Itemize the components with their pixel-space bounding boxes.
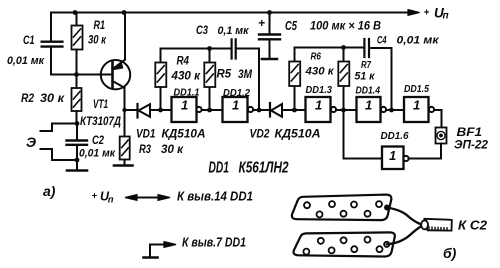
sensor electrode Э	[41, 149, 78, 160]
resistor R3	[120, 110, 130, 165]
label DD1.1	[174, 87, 200, 113]
power rail +Un	[51, 10, 420, 41]
svg-text:VT1: VT1	[93, 99, 108, 111]
svg-text:51 к: 51 к	[355, 71, 376, 83]
gate DD1.5	[404, 97, 442, 128]
svg-text:430 к: 430 к	[170, 71, 201, 83]
sound emitter BF1	[436, 128, 447, 159]
label R6	[304, 51, 335, 78]
gate DD1.3	[306, 97, 357, 122]
wire collector to VD1	[125, 109, 138, 111]
svg-text:30 к: 30 к	[88, 35, 107, 47]
label C2	[79, 133, 116, 160]
svg-text:0,01 мк: 0,01 мк	[79, 148, 116, 160]
sensor plate lower	[294, 232, 395, 256]
label R5	[217, 69, 253, 82]
label DD1.6	[381, 130, 409, 163]
svg-text:DD1.4: DD1.4	[356, 85, 381, 97]
svg-text:1: 1	[315, 98, 322, 113]
svg-text:1: 1	[389, 148, 396, 163]
svg-text:C2: C2	[92, 133, 104, 147]
svg-text:3М: 3М	[238, 69, 252, 81]
label b)	[443, 245, 457, 261]
sensor plate upper	[292, 195, 391, 221]
svg-text:C3: C3	[196, 23, 208, 37]
wire top of right multivibrator	[295, 45, 365, 50]
label BF1	[454, 127, 489, 152]
label DD1.2	[223, 87, 250, 113]
svg-text:К561ЛН2: К561ЛН2	[239, 160, 289, 177]
svg-text:30 к: 30 к	[40, 93, 65, 105]
svg-text:КД510А: КД510А	[275, 127, 321, 141]
svg-text:КД510А: КД510А	[162, 127, 206, 141]
svg-text:п: п	[443, 10, 449, 21]
capacitor C4	[364, 39, 391, 110]
svg-text:30 к: 30 к	[161, 144, 184, 156]
svg-text:DD1: DD1	[209, 160, 230, 177]
svg-text:BF1: BF1	[457, 127, 483, 139]
resistor R2	[72, 75, 82, 124]
label VD1	[136, 127, 206, 141]
svg-text:R1: R1	[94, 20, 106, 32]
connector lug	[421, 219, 452, 231]
label pin 7	[182, 236, 246, 250]
svg-text:VD2: VD2	[250, 127, 270, 141]
svg-text:DD1.5: DD1.5	[404, 83, 429, 95]
svg-text:п: п	[108, 195, 114, 206]
gate DD1.6 feedback	[344, 110, 442, 169]
label R4	[170, 56, 201, 83]
svg-text:C5: C5	[285, 19, 298, 33]
svg-text:+: +	[258, 16, 265, 30]
svg-text:VD1: VD1	[136, 127, 156, 141]
svg-text:R7: R7	[361, 59, 372, 71]
svg-text:К выв.7 DD1: К выв.7 DD1	[182, 236, 246, 250]
node DD1.2 out	[257, 108, 262, 113]
label C5	[285, 19, 381, 34]
svg-text:К C2: К C2	[458, 219, 487, 233]
svg-text:100 мк × 16 В: 100 мк × 16 В	[310, 19, 381, 33]
label VT1	[80, 99, 121, 128]
svg-text:C1: C1	[23, 35, 35, 47]
svg-text:430 к: 430 к	[304, 66, 335, 78]
svg-text:R5: R5	[217, 69, 232, 81]
common bar under C2	[67, 169, 87, 172]
node C4 drop	[389, 108, 394, 113]
label R2	[21, 93, 65, 105]
label Э	[26, 134, 36, 150]
label DD1.4	[356, 85, 381, 113]
common bar under R3	[114, 164, 133, 167]
resistor R6	[289, 48, 300, 111]
resistor R5	[204, 49, 215, 111]
wires to connector	[387, 208, 422, 245]
label R3	[139, 144, 184, 156]
svg-text:1: 1	[365, 98, 372, 113]
legend +Un arrow to pin 14	[125, 195, 170, 201]
node R4	[158, 108, 163, 113]
svg-text:DD1.3: DD1.3	[306, 84, 333, 96]
label DD1.3	[306, 84, 333, 113]
svg-text:б): б)	[443, 245, 457, 261]
gate DD1.2	[223, 97, 271, 122]
transistor VT1	[101, 10, 130, 110]
diode VD1	[138, 104, 172, 118]
svg-text:R3: R3	[139, 144, 151, 156]
svg-text:ЭП-22: ЭП-22	[454, 140, 489, 152]
gate DD1.4	[357, 97, 405, 122]
label R7	[355, 59, 376, 83]
label C3	[196, 23, 250, 37]
capacitor C5	[259, 10, 280, 58]
label C4	[377, 35, 440, 47]
svg-text:R6: R6	[311, 51, 322, 63]
label +Un bottom	[92, 190, 254, 206]
svg-text:0,1 мк: 0,1 мк	[218, 25, 250, 37]
label K C2	[458, 219, 487, 233]
wire base node	[51, 10, 111, 77]
svg-text:1: 1	[232, 98, 239, 113]
svg-text:DD1.6: DD1.6	[381, 130, 409, 142]
capacitor C1	[42, 42, 63, 75]
label C1	[7, 35, 45, 67]
svg-text:КТ3107Д: КТ3107Д	[80, 114, 121, 128]
label DD1.5	[404, 83, 429, 113]
resistor R4	[155, 49, 166, 111]
label a)	[43, 183, 56, 199]
legend ground to pin 7	[144, 242, 177, 258]
capacitor C2	[67, 124, 88, 171]
label +Un top	[424, 6, 449, 22]
node R5	[207, 108, 212, 113]
diode VD2	[270, 103, 306, 117]
resistor R7	[338, 48, 349, 111]
plus sign C5	[258, 16, 265, 30]
node collector	[122, 108, 126, 112]
resistor R1	[72, 13, 83, 75]
node R6	[292, 108, 297, 113]
svg-text:0,01 мк: 0,01 мк	[397, 35, 441, 47]
svg-text:0,01 мк: 0,01 мк	[7, 55, 45, 67]
svg-text:а): а)	[43, 183, 56, 199]
svg-text:Э: Э	[26, 134, 36, 150]
svg-text:К выв.14 DD1: К выв.14 DD1	[177, 190, 253, 204]
svg-text:R2: R2	[21, 93, 35, 105]
node R7 feedback	[341, 108, 346, 113]
svg-text:1: 1	[413, 98, 420, 113]
svg-text:+: +	[424, 8, 430, 19]
label R1	[88, 20, 107, 47]
svg-text:C4: C4	[377, 35, 387, 47]
gate DD1.1	[172, 97, 223, 122]
capacitor C3	[232, 39, 259, 110]
label VD2	[250, 127, 321, 141]
svg-text:R4: R4	[177, 56, 190, 68]
wire top of left multivibrator	[161, 46, 232, 51]
label DD1 K561LN2	[209, 160, 289, 177]
svg-text:+: +	[92, 191, 98, 202]
common bar under C5	[262, 58, 277, 61]
svg-text:1: 1	[181, 98, 188, 113]
wire R2 to sensor	[41, 121, 80, 131]
